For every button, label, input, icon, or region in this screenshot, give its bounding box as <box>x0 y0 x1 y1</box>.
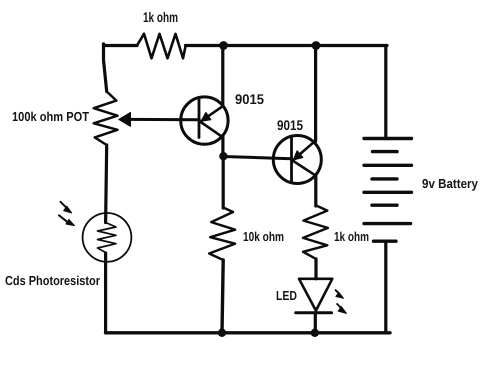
transistor Q1 collector <box>200 122 222 137</box>
wire wiper to Q1 base <box>130 118 200 121</box>
svg-text:1k ohm: 1k ohm <box>334 229 369 244</box>
svg-text:9015: 9015 <box>277 117 303 133</box>
battery BT1 plate long 3 <box>364 191 412 194</box>
svg-text:9015: 9015 <box>235 91 264 107</box>
transistor Q1 base bar <box>198 99 201 138</box>
wire top rail left segment <box>104 44 138 47</box>
transistor Q1 emitter with arrow <box>201 106 223 121</box>
battery BT1 plate long 4 <box>364 222 411 225</box>
wire node C down to 10k resistor <box>222 157 225 209</box>
resistor R4 1k ohm (right) <box>303 205 328 259</box>
node junction top of Q2 rail <box>312 41 321 50</box>
transistor Q1 body <box>181 97 228 144</box>
transistor Q2 collector <box>293 161 315 175</box>
node junction bottom of 10k resistor <box>218 329 226 337</box>
wire 10k resistor down to bottom node <box>222 260 223 333</box>
svg-text:10k ohm: 10k ohm <box>243 229 284 244</box>
battery BT1 plate short 1 <box>373 150 398 153</box>
transistor Q2 emitter with arrow <box>293 141 315 160</box>
transistor Q2 body <box>273 136 321 184</box>
wire top rail corner down to battery <box>384 46 387 139</box>
node junction top of Q1 rail <box>219 41 228 50</box>
wire LED cathode down to bottom node <box>314 313 317 333</box>
transistor Q2 base bar <box>290 137 293 182</box>
wire node C to Q2 base <box>223 157 291 159</box>
resistor R1 1k ohm (top) <box>137 34 186 59</box>
node junction bottom of LED <box>311 329 319 337</box>
potentiometer R2 100k element zigzag <box>94 92 118 146</box>
wire node B down to Q2 emitter <box>314 46 317 142</box>
light arrow 1 into photoresistor <box>61 202 72 213</box>
LED D1 triangle <box>299 279 332 311</box>
battery BT1 plate long 1 <box>364 137 412 140</box>
battery BT1 plate long 2 <box>364 164 412 167</box>
LED D1 cathode bar <box>296 311 332 314</box>
svg-text:9v Battery: 9v Battery <box>422 176 479 191</box>
node junction C Q1 collector to Q2 base <box>219 152 227 160</box>
battery BT1 plate short 2 <box>372 177 397 180</box>
svg-text:Cds Photoresistor: Cds Photoresistor <box>5 273 100 288</box>
photoresistor LDR1 body circle <box>83 213 132 262</box>
wire 1k resistor down to LED anode <box>314 259 317 279</box>
wire photoresistor bottom to corner <box>104 253 107 333</box>
svg-text:100k ohm POT: 100k ohm POT <box>12 109 89 124</box>
wire pot bottom to photoresistor <box>106 145 107 223</box>
wire node A down to Q1 emitter <box>221 46 224 107</box>
wire top rail right segment <box>186 44 388 47</box>
resistor R3 10k ohm <box>209 208 235 261</box>
wire Q2 collector down to 1k resistor <box>314 176 317 206</box>
potentiometer R2 wiper arrow <box>119 112 131 126</box>
wire left rail top <box>104 44 107 92</box>
LED light arrow 1 <box>336 290 344 298</box>
battery BT1 plate short 4 <box>374 239 397 242</box>
wire Q1 collector down to node C <box>221 136 224 157</box>
svg-text:1k ohm: 1k ohm <box>143 9 178 25</box>
photoresistor LDR1 element zigzag <box>98 223 117 253</box>
wire bottom rail <box>106 331 391 334</box>
LED light arrow 2 <box>337 304 346 313</box>
light arrow 2 into photoresistor <box>59 215 74 225</box>
wire battery bottom to bottom rail <box>384 241 387 333</box>
svg-text:LED: LED <box>276 288 297 303</box>
battery BT1 plate short 3 <box>372 203 397 206</box>
